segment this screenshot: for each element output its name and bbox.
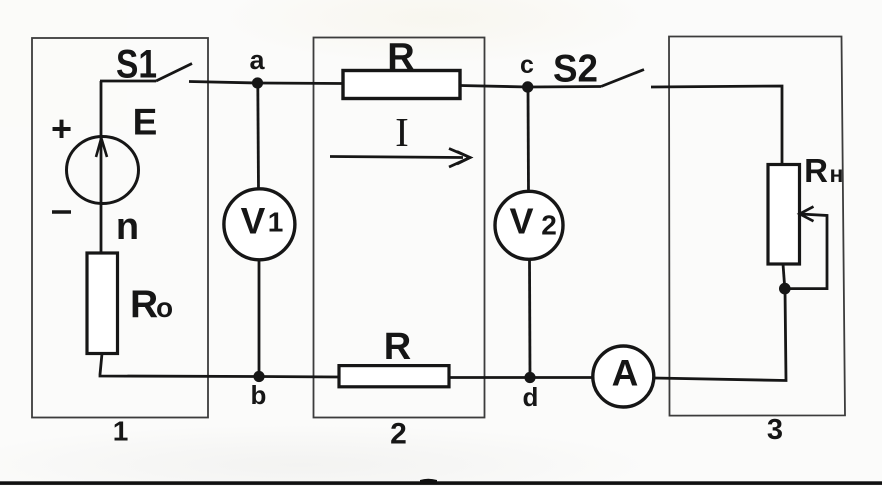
wire: S1 left stub	[100, 80, 156, 83]
rheostat wiper arrow	[785, 207, 827, 289]
svg-text:3: 3	[767, 414, 783, 446]
node a	[252, 77, 263, 88]
svg-text:V: V	[241, 201, 266, 242]
svg-text:1: 1	[268, 207, 284, 238]
label d	[523, 382, 539, 412]
wire: node a down to voltmeter V1	[256, 83, 260, 190]
wire: ammeter A to right corner and up to junction	[654, 289, 786, 381]
svg-text:b: b	[251, 380, 267, 410]
box 1	[32, 38, 208, 418]
node c	[522, 81, 533, 92]
svg-text:d: d	[523, 382, 539, 412]
wire: node c to S2	[528, 85, 601, 88]
node b	[253, 371, 264, 382]
label 1	[113, 416, 129, 447]
svg-text:V: V	[509, 201, 533, 242]
wire: RH bottom to junction	[783, 264, 785, 289]
label I	[395, 109, 409, 155]
wire: V1 down to node b	[258, 260, 261, 377]
svg-text:S2: S2	[553, 48, 598, 91]
wire: node c down to voltmeter V2	[527, 87, 530, 193]
current arrow I	[330, 149, 470, 168]
svg-text:c: c	[520, 51, 534, 79]
label S2	[553, 48, 598, 91]
svg-text:2: 2	[390, 418, 407, 451]
junction node	[779, 283, 791, 295]
label minus	[52, 210, 71, 213]
wire: resistor R to node c	[460, 86, 528, 88]
wire: V2 down to node d	[528, 259, 531, 378]
label a	[249, 45, 265, 75]
wire: top from S1 to node a to resistor R	[189, 82, 344, 84]
label 3	[767, 414, 783, 446]
switch S2 blade	[601, 70, 644, 87]
svg-text:R: R	[387, 37, 414, 79]
label S1	[116, 43, 157, 87]
label E	[133, 102, 158, 143]
svg-text:A: A	[612, 353, 639, 394]
label R (bottom)	[384, 326, 411, 368]
resistor R (bottom)	[339, 366, 449, 387]
wire: node b to bottom resistor R	[259, 375, 340, 378]
svg-text:R: R	[130, 283, 158, 326]
source E arrow	[96, 138, 107, 157]
switch S1 blade	[156, 64, 192, 82]
label +	[51, 108, 72, 149]
svg-text:S1: S1	[116, 43, 157, 87]
resistor R0	[87, 253, 118, 354]
svg-text:a: a	[249, 45, 265, 75]
wire: bottom resistor R to node d	[449, 376, 530, 379]
wire: node d to ammeter A	[530, 376, 592, 379]
label c	[520, 51, 534, 79]
label RH	[804, 152, 843, 189]
svg-text:R: R	[384, 326, 411, 368]
label R0	[130, 283, 173, 326]
label n	[116, 206, 139, 248]
resistor R (top)	[343, 71, 460, 99]
svg-text:R: R	[804, 152, 828, 189]
rheostat RH body	[768, 165, 800, 265]
label b	[251, 380, 267, 410]
svg-text:o: o	[156, 292, 173, 323]
box 2	[314, 38, 485, 418]
svg-text:I: I	[395, 109, 409, 155]
wire: R0 bottom to node b	[100, 354, 259, 377]
node d	[524, 372, 535, 383]
svg-text:2: 2	[541, 210, 557, 241]
svg-text:1: 1	[113, 416, 129, 447]
voltmeter V2	[495, 191, 563, 259]
source E circle	[67, 137, 139, 204]
bottom border line	[0, 479, 882, 485]
voltmeter V1	[224, 189, 295, 260]
box 3	[669, 37, 845, 416]
wire: S2 to top-right corner, down to rheostat RH	[651, 86, 782, 165]
svg-text:n: n	[116, 206, 139, 248]
label 2	[390, 418, 407, 451]
svg-text:E: E	[133, 102, 158, 143]
label R (top)	[387, 37, 414, 79]
svg-text:+: +	[51, 108, 72, 149]
ammeter A	[593, 346, 654, 407]
wire: left vertical from S1 down through source E to R0	[100, 81, 103, 253]
svg-text:н: н	[830, 161, 844, 187]
